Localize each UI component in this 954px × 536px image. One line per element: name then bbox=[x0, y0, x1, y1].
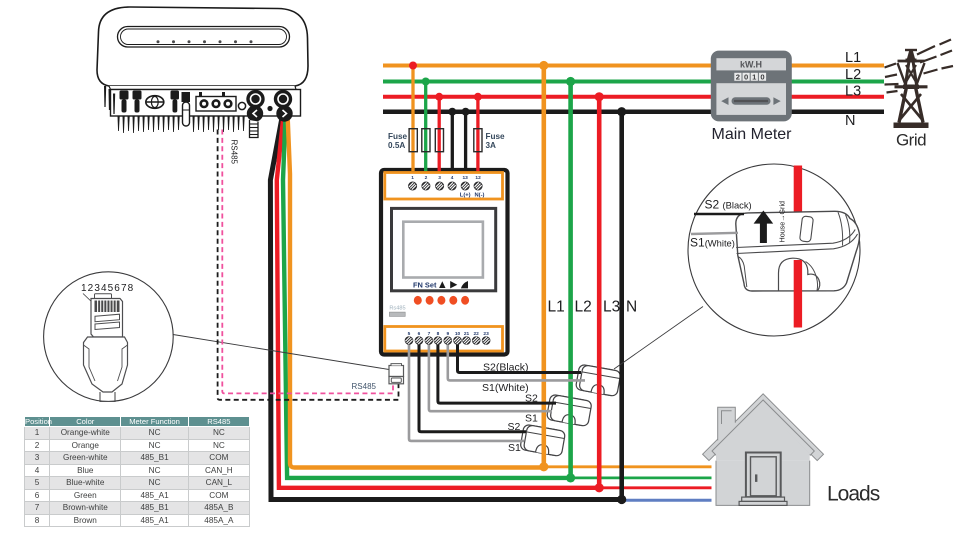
svg-text:S1(White): S1(White) bbox=[482, 382, 529, 394]
svg-text:Main Meter: Main Meter bbox=[711, 126, 792, 143]
node junction dot on L3 bus (red) bbox=[474, 93, 482, 101]
node junction dot N bottom (black) bbox=[617, 495, 626, 504]
wire CT1 S2 black from terminal 10 bbox=[458, 341, 582, 373]
svg-text:Grid: Grid bbox=[896, 130, 926, 149]
svg-text:L3: L3 bbox=[603, 299, 620, 316]
label L2 bbox=[575, 299, 592, 316]
svg-text:S2 (Black): S2 (Black) bbox=[705, 198, 752, 212]
svg-text:N(-): N(-) bbox=[475, 193, 485, 199]
wire inverter AC N down to junction (black) bbox=[270, 115, 621, 500]
node junction dot L2 bottom (green) bbox=[566, 473, 575, 482]
label S2 (CT3) bbox=[508, 421, 521, 433]
wire drop to meter terminal 4 (black) bbox=[451, 112, 454, 171]
meter M1 energy meter body bbox=[381, 170, 508, 355]
wire inverter AC L3 down to junction (red) bbox=[277, 115, 599, 488]
pin numbers 5 6 7 8 9 10 21 22 23 bbox=[408, 331, 489, 337]
svg-text:S1: S1 bbox=[525, 413, 538, 425]
node junction dot on L3 bus (red) bbox=[435, 93, 443, 101]
svg-text:Fuse: Fuse bbox=[486, 132, 506, 141]
wire drop to meter terminal 2 (green) bbox=[424, 82, 427, 172]
svg-text:9: 9 bbox=[446, 331, 449, 337]
leader line circle to RS485 plug bbox=[173, 335, 389, 370]
inverter AC connector 2 (metering) bbox=[267, 90, 292, 122]
fuse F3 0.5A on terminal-3 drop bbox=[435, 129, 443, 152]
wire CT3 S2 black from terminal 6 bbox=[419, 341, 526, 432]
label S1 (CT3) bbox=[508, 442, 521, 454]
inverter DC switch bbox=[146, 96, 164, 109]
wire drop to meter terminal 1 (orange) bbox=[411, 66, 414, 172]
svg-text:7: 7 bbox=[428, 331, 431, 337]
label Loads bbox=[827, 483, 880, 506]
label L2 (top right) bbox=[845, 67, 861, 83]
wire CT1 S1 gray from terminal 9 bbox=[448, 341, 585, 381]
meter M1 LCD screen bbox=[403, 222, 483, 278]
svg-text:S2: S2 bbox=[508, 421, 521, 433]
wire CT3 S1 gray from terminal 5 bbox=[409, 341, 524, 441]
grid line dashes bbox=[885, 40, 954, 93]
label Rs485 port on meter bbox=[389, 305, 405, 316]
wire drop to meter terminal 13 (black) bbox=[464, 112, 467, 171]
RS485 dashed wire pink from inverter bbox=[222, 130, 393, 394]
wire drop to meter terminal 12 (red) bbox=[476, 97, 479, 171]
meter M1 top terminal screws 1 2 3 4 13 12 bbox=[408, 182, 483, 191]
inverter AC connector 1 bbox=[246, 90, 264, 122]
svg-text:S2(Black): S2(Black) bbox=[483, 362, 529, 374]
svg-text:23: 23 bbox=[483, 331, 489, 337]
wire inverter AC L1 down to junction (orange) bbox=[288, 113, 544, 468]
svg-text:Rs485: Rs485 bbox=[389, 305, 405, 311]
svg-text:0.5A: 0.5A bbox=[388, 141, 405, 150]
RS485 dashed wire black from inverter bbox=[218, 130, 399, 400]
svg-text:0: 0 bbox=[744, 73, 748, 82]
wire L2 top bus (green) bbox=[383, 80, 884, 84]
wire N vertical drop to loads (black) bbox=[619, 112, 624, 500]
svg-text:L1: L1 bbox=[845, 50, 861, 66]
svg-text:L(+): L(+) bbox=[460, 193, 471, 199]
CT1 current transformer on L3 bbox=[575, 364, 621, 396]
label L3 (top right) bbox=[845, 84, 861, 100]
loads house bbox=[703, 394, 824, 506]
label S2 (CT2) bbox=[525, 393, 538, 405]
svg-text:5: 5 bbox=[408, 331, 411, 337]
CT notch bbox=[779, 258, 820, 291]
label Fuse 3A bbox=[486, 132, 506, 150]
inverter MC4 single bbox=[171, 91, 180, 113]
svg-text:4: 4 bbox=[451, 175, 454, 181]
meter M1 top terminal strip bbox=[385, 173, 503, 200]
svg-text:N: N bbox=[626, 299, 637, 316]
svg-text:FN Set: FN Set bbox=[413, 280, 437, 289]
svg-text:S2: S2 bbox=[525, 393, 538, 405]
CT2 current transformer on L2 bbox=[546, 394, 592, 426]
fuse F2 0.5A on terminal-2 drop bbox=[422, 129, 430, 152]
node junction dot L1 bottom (orange) bbox=[539, 462, 548, 471]
meter M1 bottom terminal strip bbox=[385, 327, 503, 352]
inverter body bbox=[97, 7, 308, 116]
wire inverter AC L2 down to junction (green) bbox=[283, 115, 571, 478]
detail circle: CT close-up bbox=[614, 164, 860, 369]
wire L1 top bus (orange) bbox=[383, 64, 884, 68]
label N bbox=[626, 299, 637, 316]
wire CT2 S1 gray from terminal 7 bbox=[429, 341, 552, 412]
label S1(White) bbox=[482, 382, 529, 394]
main meter lower panel with dial bbox=[716, 83, 786, 115]
label RS485 (rotated, at inverter) bbox=[230, 140, 239, 165]
leader line circle to CT1 bbox=[614, 307, 703, 370]
label L3 bbox=[603, 299, 620, 316]
node junction dot N top (black) bbox=[617, 107, 626, 116]
wire L3 vertical drop to loads (red) bbox=[597, 97, 602, 488]
label Fuse 0.5A bbox=[388, 132, 408, 150]
node junction dot L3 top (red) bbox=[595, 92, 604, 101]
svg-text:21: 21 bbox=[464, 331, 470, 337]
svg-text:8: 8 bbox=[437, 331, 440, 337]
wire L2 thin bus to house (green) bbox=[571, 476, 712, 479]
label L1 (top right) bbox=[845, 50, 861, 66]
wire L1 thin bus to house (orange) bbox=[544, 465, 712, 468]
svg-text:13: 13 bbox=[463, 175, 469, 181]
node junction dot on L2 bus (green) bbox=[422, 78, 430, 86]
CT clamp body outline bbox=[736, 211, 860, 291]
wire CT2 S2 black from terminal 8 bbox=[438, 341, 556, 404]
svg-text:10: 10 bbox=[455, 331, 461, 337]
grid transmission tower bbox=[894, 50, 929, 129]
wire L3 top bus (red) bbox=[383, 95, 884, 99]
inverter small gland bbox=[238, 102, 245, 109]
wire N top bus (black) bbox=[383, 109, 884, 114]
wire L2 vertical drop to loads (green) bbox=[568, 82, 573, 478]
red wire upper segment bbox=[794, 166, 802, 215]
inverter heat sink fins bbox=[104, 86, 245, 133]
svg-text:12345678: 12345678 bbox=[81, 283, 134, 294]
svg-text:S1(White): S1(White) bbox=[690, 236, 735, 250]
CT3 current transformer on L1 bbox=[520, 424, 566, 456]
red wire through notch and below bbox=[794, 260, 802, 328]
table RS485 pinout bbox=[24, 416, 250, 528]
loads house door bbox=[739, 453, 787, 506]
fuse F1 0.5A on terminal-1 drop bbox=[409, 129, 417, 152]
CT LED slot bbox=[800, 216, 814, 242]
label L(+) N(-) bbox=[460, 193, 485, 199]
node junction dot L3 bottom (red) bbox=[595, 483, 604, 492]
detail circle: RJ45 connector bbox=[44, 272, 389, 402]
RJ45 plug drawing bbox=[84, 294, 128, 402]
label FN Set bbox=[413, 280, 437, 289]
main meter body bbox=[711, 51, 792, 122]
node junction dot L1 top (orange) bbox=[539, 61, 548, 70]
inverter AC1 ribbed tail bbox=[250, 120, 259, 138]
label L1 bbox=[548, 299, 565, 316]
inverter top oval with LEDs bbox=[118, 27, 290, 48]
label S1 (CT2) bbox=[525, 413, 538, 425]
label Main Meter bbox=[711, 126, 792, 143]
wire L1 vertical drop to loads (orange) bbox=[541, 66, 546, 467]
wire N to house (blue) bbox=[622, 499, 712, 502]
svg-text:House→Grid: House→Grid bbox=[778, 201, 787, 243]
CT pigtail wires black and gray bbox=[694, 213, 744, 215]
inverter comm terminal block bbox=[196, 92, 236, 111]
svg-text:RS485: RS485 bbox=[352, 382, 377, 391]
inverter DC connectors MC4 left pair bbox=[120, 91, 142, 113]
svg-text:3: 3 bbox=[438, 175, 441, 181]
meter M1 bottom terminal screws 5 6 7 8 9 10 21 22 23 bbox=[405, 336, 491, 345]
label N (top right) bbox=[845, 113, 855, 129]
svg-text:L2: L2 bbox=[575, 299, 592, 316]
meter M1 display bezel bbox=[392, 208, 496, 290]
svg-text:12: 12 bbox=[475, 175, 481, 181]
inverter wifi antenna bbox=[182, 92, 191, 126]
fuse F4 3A on terminal-12 drop bbox=[474, 129, 482, 152]
wire drop to meter terminal 3 (red) bbox=[438, 97, 441, 171]
label S2(Black) bbox=[483, 362, 529, 374]
svg-text:Fuse: Fuse bbox=[388, 132, 408, 141]
arrow House to Grid bbox=[754, 211, 774, 244]
meter LED indicators bbox=[414, 296, 469, 305]
svg-text:L2: L2 bbox=[845, 67, 861, 83]
main meter digit wheels 2 0 1 0 bbox=[734, 73, 766, 82]
svg-text:S1: S1 bbox=[508, 442, 521, 454]
node junction dot on L1 bus (red) bbox=[409, 62, 417, 70]
label Grid bbox=[896, 130, 926, 149]
svg-text:3A: 3A bbox=[486, 141, 497, 150]
wire L3 thin bus to house (red) bbox=[599, 486, 711, 489]
svg-text:kW.H: kW.H bbox=[740, 60, 762, 70]
node junction dot L2 top (green) bbox=[566, 77, 575, 86]
node junction dot on N bus (black) bbox=[448, 108, 456, 116]
label RS485 (at plug) bbox=[352, 382, 377, 391]
svg-text:6: 6 bbox=[418, 331, 421, 337]
svg-text:L1: L1 bbox=[548, 299, 565, 316]
node junction dot on N bus (black) bbox=[462, 108, 470, 116]
svg-text:0: 0 bbox=[760, 73, 764, 82]
svg-text:22: 22 bbox=[474, 331, 480, 337]
RS485 plug at meter bbox=[389, 364, 404, 384]
svg-text:1: 1 bbox=[411, 175, 414, 181]
pin numbers 1 2 3 4 13 12 bbox=[411, 175, 481, 181]
svg-text:RS485: RS485 bbox=[230, 140, 239, 165]
svg-text:2: 2 bbox=[425, 175, 428, 181]
meter buttons up / right / enter bbox=[439, 281, 468, 288]
svg-text:L3: L3 bbox=[845, 84, 861, 100]
svg-text:2: 2 bbox=[736, 73, 740, 82]
svg-text:Loads: Loads bbox=[827, 483, 880, 506]
svg-text:N: N bbox=[845, 113, 855, 129]
